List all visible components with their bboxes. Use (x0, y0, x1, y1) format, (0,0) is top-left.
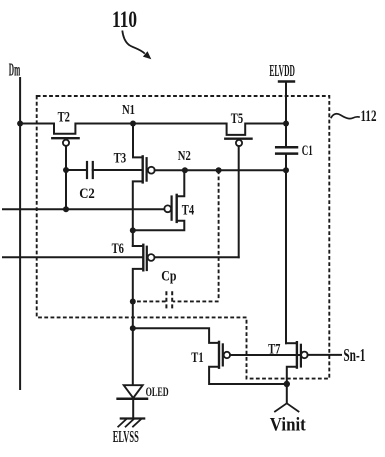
svg-text:T4: T4 (182, 202, 195, 218)
svg-text:T5: T5 (231, 111, 243, 127)
svg-text:T6: T6 (112, 241, 125, 257)
svg-text:110: 110 (112, 7, 137, 32)
svg-text:Sn-1: Sn-1 (343, 345, 365, 365)
svg-text:ELVSS: ELVSS (113, 427, 139, 446)
svg-text:T3: T3 (114, 151, 127, 167)
svg-text:Dm: Dm (9, 60, 20, 80)
svg-text:112: 112 (361, 108, 377, 125)
svg-text:C2: C2 (79, 186, 95, 202)
svg-text:T7: T7 (268, 342, 281, 358)
svg-text:T2: T2 (58, 109, 70, 125)
svg-text:T1: T1 (191, 350, 203, 366)
svg-text:Cp: Cp (161, 268, 176, 284)
svg-text:ELVDD: ELVDD (269, 61, 295, 80)
svg-text:C1: C1 (302, 143, 313, 159)
svg-text:OLED: OLED (146, 384, 169, 399)
svg-text:N1: N1 (122, 103, 135, 118)
svg-text:Vinit: Vinit (270, 415, 307, 435)
svg-text:N2: N2 (178, 149, 191, 164)
